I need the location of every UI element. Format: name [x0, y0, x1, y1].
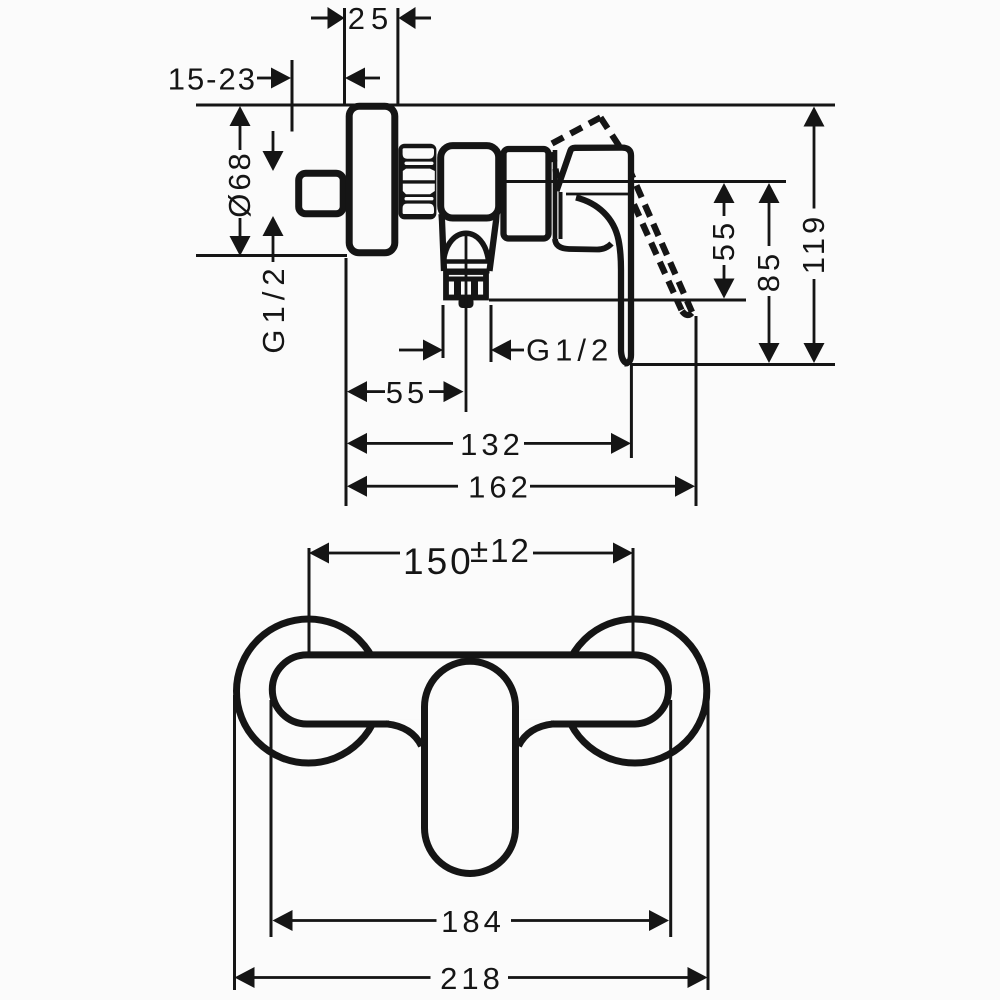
outlet union nut	[446, 272, 486, 298]
extension line y=255.5 (escutcheon bottom)	[196, 254, 347, 257]
extension line y=364.5 (85/119 bottom reference)	[630, 363, 835, 366]
extension line x=346 (wall plane down)	[345, 258, 348, 506]
dimension 162	[347, 476, 695, 497]
bar bottom edge trim at handle junction	[389, 719, 551, 729]
dimension 184	[273, 910, 670, 931]
dimension G1/2 (wall nipple) dim line with arrows	[263, 131, 284, 262]
extension line y=181.5 (55/85 top reference)	[499, 180, 786, 183]
union nut slit upper	[405, 162, 434, 165]
dimension 132	[347, 433, 631, 454]
lever raised rear long dashed edge	[608, 147, 682, 310]
svg-text:15-23: 15-23	[168, 62, 257, 97]
handle capsule (front view)	[425, 661, 516, 873]
svg-text:Ø68: Ø68	[222, 150, 257, 218]
svg-text:150: 150	[403, 541, 474, 582]
union nut facet window middle lower	[403, 184, 435, 195]
escutcheon wall plate	[349, 106, 395, 253]
svg-text:G1/2: G1/2	[256, 262, 291, 353]
svg-text:±12: ±12	[470, 532, 531, 569]
handle interior thin line	[566, 193, 628, 196]
handle occluder fill	[554, 145, 634, 362]
outlet tip nub	[459, 298, 474, 309]
extension line x=491 (outlet thread right)	[490, 305, 493, 362]
svg-text:55: 55	[706, 219, 741, 261]
outlet union nut knurl line	[444, 277, 489, 282]
wall supply nipple G1/2	[299, 173, 344, 214]
dimension 15-23 arrows	[257, 68, 380, 89]
svg-text:162: 162	[468, 470, 532, 505]
extension line y=105 (escutcheon top / 119 top reference)	[196, 104, 835, 107]
extension line x=271 (bar left plane)	[270, 700, 273, 937]
union nut facet window middle upper	[403, 169, 435, 181]
dimension G1/2 outlet arrows	[399, 340, 524, 361]
union nut block	[399, 144, 437, 220]
wall plane line (15-23)	[291, 60, 294, 132]
extension line x=696 (lever tip plane down)	[695, 316, 698, 506]
svg-text:85: 85	[751, 250, 786, 292]
lever raised rear short dashed edge	[553, 152, 559, 186]
svg-text:184: 184	[441, 904, 505, 939]
outlet axis center line	[465, 232, 468, 412]
lever raised top-right dashed edge	[601, 118, 620, 147]
outlet band lower line	[444, 269, 490, 274]
extension line x=670.7 (bar right plane)	[669, 700, 672, 937]
extension line x=633 (right connection axis)	[632, 548, 635, 652]
lever raised tip dashed cap	[682, 311, 693, 315]
dimension 55 vertical right	[714, 183, 735, 299]
extension line x=309 (left connection axis)	[308, 548, 311, 652]
svg-text:119: 119	[796, 213, 831, 274]
extension line x=344.5 (escutcheon left plane)	[343, 8, 346, 106]
extension line y=300 (55 bottom reference)	[489, 299, 746, 302]
dimension 218	[235, 967, 708, 988]
svg-text:G1/2: G1/2	[526, 333, 613, 368]
dimension Ø68 vertical dim line with arrows	[230, 106, 251, 256]
dimension 55 horizontal	[347, 381, 464, 402]
extension line x=234.5 (outer left plane)	[233, 695, 236, 990]
union nut slit lower	[405, 197, 434, 200]
handle neck inner line	[559, 192, 563, 239]
right bar-capsule fillet	[519, 724, 555, 746]
neck bottom curve	[555, 239, 612, 250]
left escutcheon circle (front view)	[237, 619, 381, 763]
cartridge adapter sleeve	[504, 149, 549, 239]
svg-text:25: 25	[348, 1, 394, 36]
extension line x=631.4 (handle front plane down)	[630, 366, 633, 458]
dimension 25 dim-line and arrows	[311, 7, 431, 29]
spout S-curve and inner handle edge	[576, 198, 628, 364]
svg-text:132: 132	[460, 427, 524, 462]
svg-text:218: 218	[440, 961, 504, 996]
extension line x=708 (outer right plane)	[707, 695, 710, 990]
lever raised top-left dashed edge	[552, 118, 601, 144]
outlet dome arc	[444, 233, 489, 261]
dimension 119 vertical	[804, 107, 825, 364]
right escutcheon circle (front view)	[563, 619, 707, 763]
valve body skirt right edge	[490, 214, 497, 271]
valve body skirt left edge	[442, 214, 445, 271]
mixer body bar (front view)	[272, 655, 668, 724]
union nut facet window top	[403, 148, 434, 159]
lever raised front long dashed edge	[620, 147, 693, 312]
dimension 85 vertical	[759, 183, 780, 363]
extension line x=397.9 (escutcheon right plane)	[396, 8, 399, 104]
dimension 150±12	[309, 543, 633, 564]
handle neck rear line	[553, 150, 558, 239]
valve body housing	[441, 146, 499, 218]
union nut facet window bottom	[403, 204, 434, 214]
handle outline	[557, 148, 632, 364]
outlet union nut teeth	[454, 279, 461, 296]
left bar-capsule fillet	[386, 724, 422, 746]
extension line x=443 (outlet thread left)	[442, 305, 445, 358]
outlet chord line	[443, 259, 490, 264]
svg-text:55: 55	[386, 375, 428, 410]
